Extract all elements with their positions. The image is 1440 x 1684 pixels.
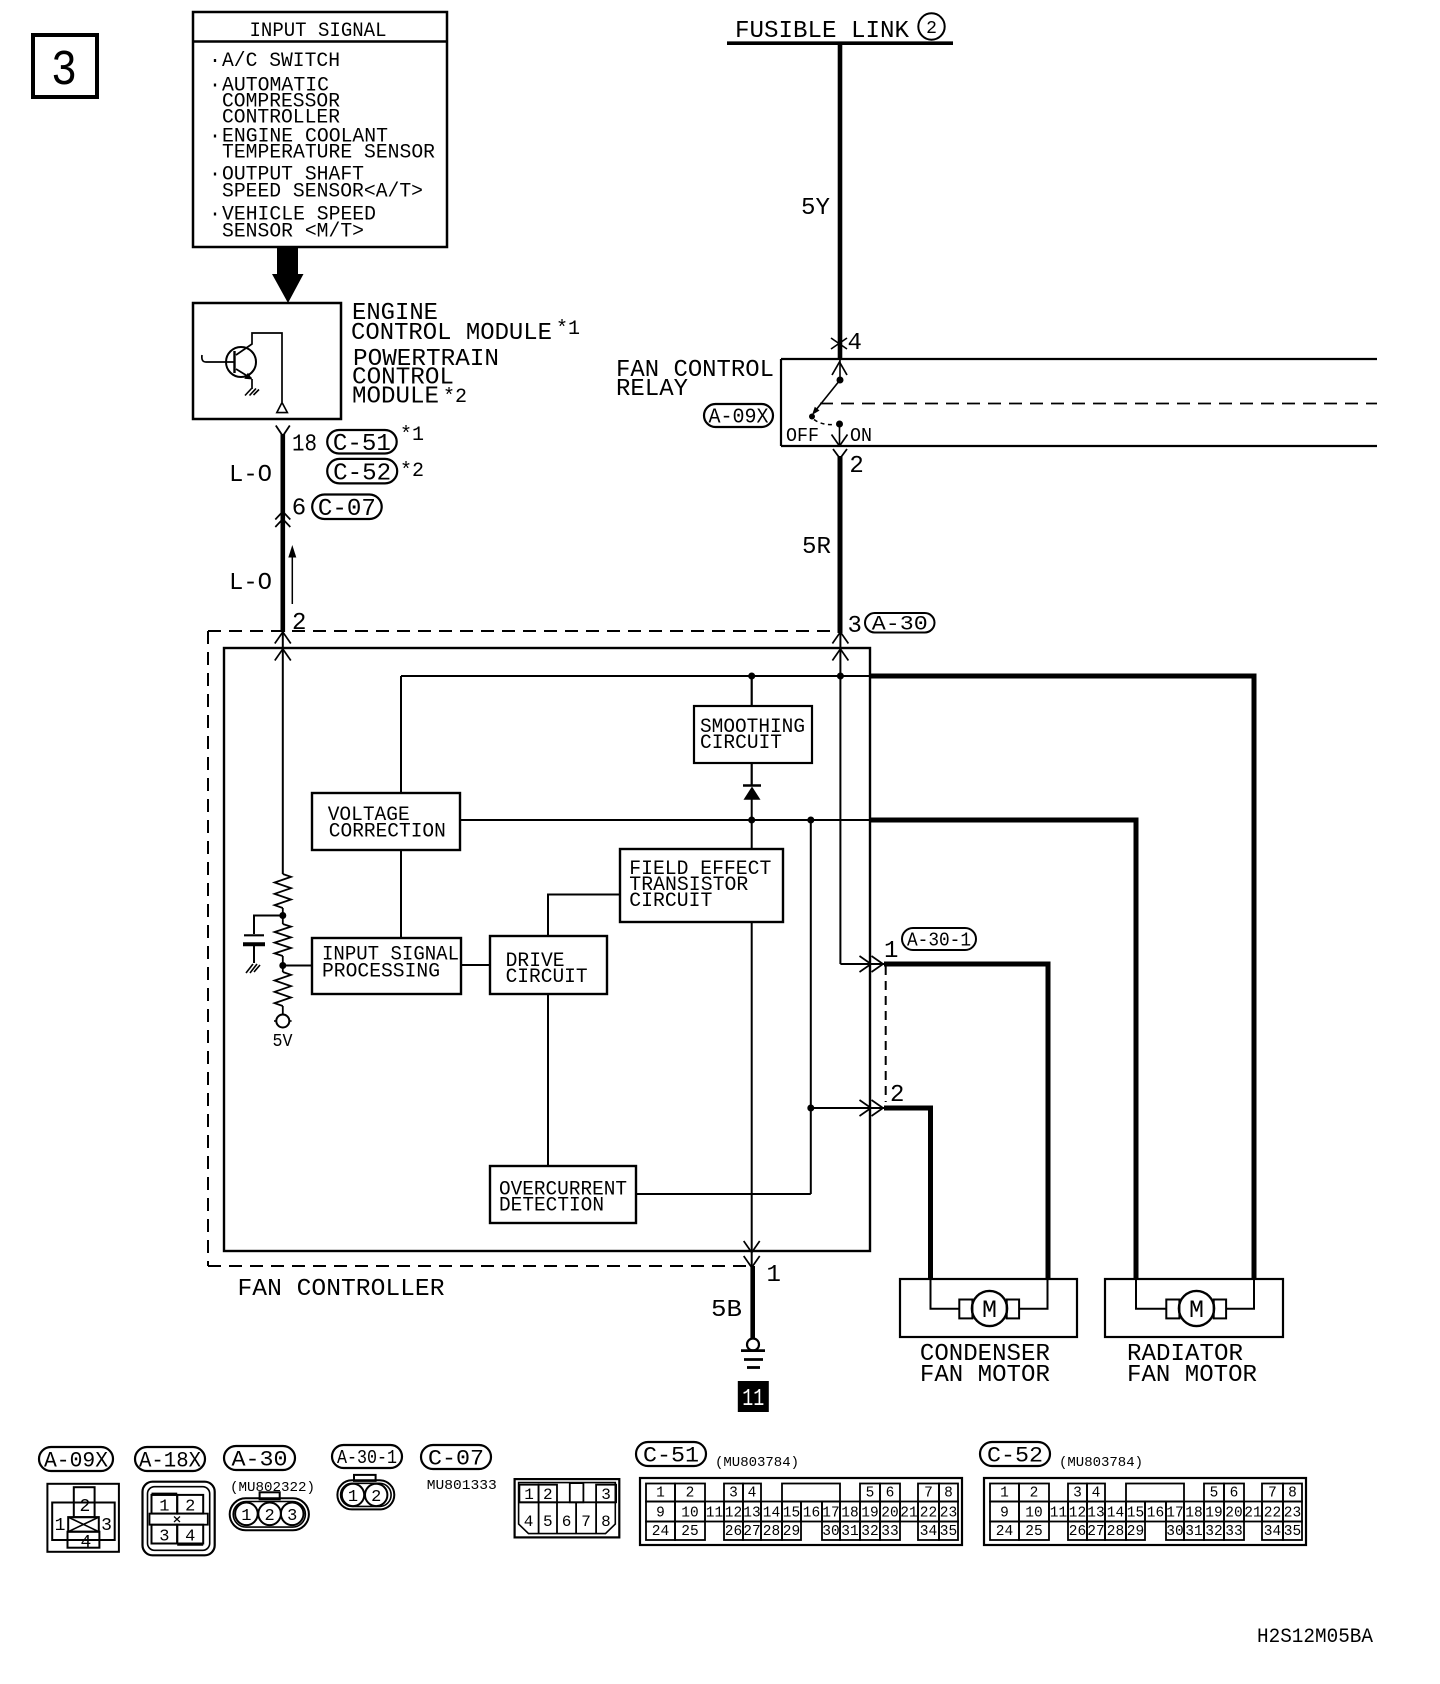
node at overcurrent branch (807, 817, 814, 824)
svg-text:14: 14 (763, 1506, 780, 1522)
relay coil dashed actuation line (820, 403, 1377, 405)
inline connector chevrons on L-O wire (275, 512, 290, 520)
connector C-51 label (636, 1442, 706, 1466)
connector ref A-30 (865, 613, 935, 633)
svg-text:1: 1 (241, 1507, 251, 1526)
svg-text:15: 15 (1127, 1506, 1144, 1522)
capacitor C1 (244, 934, 264, 936)
connector marks at output 1 (860, 956, 872, 964)
svg-text:21: 21 (900, 1506, 917, 1522)
svg-text:4: 4 (185, 1528, 195, 1547)
svg-text:5: 5 (866, 1486, 875, 1502)
transistor Q1 inside ECM (226, 347, 256, 377)
svg-text:18: 18 (292, 432, 317, 459)
svg-text:M: M (982, 1296, 997, 1325)
5V supply symbol (276, 1015, 289, 1028)
svg-text:7: 7 (1268, 1486, 1277, 1502)
svg-text:26: 26 (725, 1524, 742, 1540)
svg-text:10: 10 (1025, 1506, 1042, 1522)
svg-text:(MU803784): (MU803784) (1059, 1455, 1143, 1471)
svg-text:8: 8 (601, 1513, 611, 1531)
input signal processing block (312, 938, 461, 994)
wire FET circuit down to output pin 1 (751, 922, 753, 1266)
svg-text:32: 32 (1205, 1524, 1222, 1540)
node at smoothing circuit tap (748, 673, 755, 680)
wire 5B to ground (750, 1266, 755, 1339)
connector fork at relay pin 2 (833, 449, 840, 459)
svg-text:(MU802322): (MU802322) (230, 1480, 315, 1496)
svg-text:·: · (209, 75, 221, 98)
svg-text:17: 17 (822, 1506, 839, 1522)
resistor R3 (282, 966, 284, 973)
svg-text:23: 23 (1284, 1506, 1301, 1522)
svg-text:16: 16 (1147, 1506, 1164, 1522)
svg-text:25: 25 (681, 1524, 698, 1540)
connector A-18X pinout (143, 1482, 215, 1556)
svg-text:16: 16 (803, 1506, 820, 1522)
internal supply line top (401, 675, 870, 677)
connector A-30 label (224, 1446, 295, 1470)
svg-text:A-30: A-30 (232, 1448, 288, 1473)
condenser fan motor box (900, 1279, 1077, 1337)
wire to output 1 (840, 963, 884, 965)
svg-text:9: 9 (1000, 1506, 1009, 1522)
svg-text:SPEED SENSOR<A/T>: SPEED SENSOR<A/T> (222, 181, 423, 204)
overcurrent detection block (490, 1166, 636, 1223)
svg-text:20: 20 (881, 1506, 898, 1522)
svg-text:L-O: L-O (229, 462, 272, 489)
svg-text:3: 3 (729, 1486, 738, 1502)
svg-text:22: 22 (1264, 1506, 1281, 1522)
connector A-09X label (39, 1447, 113, 1471)
connector C-07 label (421, 1445, 491, 1469)
node junction to input signal processing (279, 962, 286, 969)
svg-text:10: 10 (681, 1506, 698, 1522)
connector C-07 pinout (515, 1479, 620, 1537)
chassis ground of transistor emitter (245, 389, 252, 396)
ground reference box 11 (738, 1381, 769, 1412)
svg-text:A-18X: A-18X (139, 1449, 201, 1474)
wire top line to smoothing circuit (751, 676, 753, 706)
svg-text:6: 6 (1230, 1486, 1239, 1502)
wire from input 2 down to resistors (282, 633, 284, 874)
svg-text:C-07: C-07 (428, 1447, 484, 1472)
svg-text:8: 8 (944, 1486, 953, 1502)
svg-text:4: 4 (748, 1486, 757, 1502)
svg-text:11: 11 (706, 1506, 723, 1522)
wire FET circuit to drive circuit (548, 895, 620, 937)
up arrow beside L-O wire (291, 554, 293, 604)
svg-text:2: 2 (686, 1486, 695, 1502)
connector ref A-30-1 (902, 928, 976, 950)
svg-text:2: 2 (543, 1486, 553, 1504)
svg-text:23: 23 (940, 1506, 957, 1522)
svg-text:9: 9 (656, 1506, 665, 1522)
svg-text:CORRECTION: CORRECTION (329, 821, 446, 844)
connector C-51 pinout grid (640, 1478, 962, 1545)
svg-text:19: 19 (1205, 1506, 1222, 1522)
svg-text:M: M (1189, 1296, 1204, 1325)
wire smoothing circuit to diode (751, 763, 753, 786)
connector A-30-1 label (332, 1445, 402, 1468)
connector ref C-51 (327, 430, 397, 454)
svg-text:MODULE: MODULE (352, 384, 439, 411)
capacitor ground (246, 964, 253, 973)
connector A-30-1 pinout (354, 1475, 376, 1481)
main wire from input 3 to output 1 (839, 633, 841, 964)
svg-text:RELAY: RELAY (616, 376, 688, 403)
svg-text:5: 5 (543, 1513, 553, 1531)
svg-text:ON: ON (850, 425, 872, 447)
svg-text:5R: 5R (802, 534, 831, 561)
svg-text:·: · (209, 164, 221, 187)
svg-text:A-09X: A-09X (44, 1449, 108, 1474)
connector C-52 pinout grid (984, 1478, 1306, 1545)
field effect transistor circuit block (620, 849, 783, 922)
wire input signal processing to drive circuit (461, 964, 490, 966)
svg-text:*2: *2 (443, 386, 467, 409)
wire to capacitor (254, 916, 283, 935)
svg-text:CIRCUIT: CIRCUIT (700, 732, 782, 755)
svg-text:C-52: C-52 (333, 460, 391, 487)
wire from top line down to voltage correction (400, 676, 402, 793)
wire voltage correction to input signal processing (400, 850, 402, 937)
voltage correction block (312, 793, 460, 850)
svg-text:3: 3 (848, 613, 862, 640)
svg-text:2: 2 (926, 19, 937, 39)
connector mark at relay pin 4 (831, 338, 847, 349)
svg-text:11: 11 (1050, 1506, 1067, 1522)
svg-text:1: 1 (884, 938, 898, 965)
wire diode to junction (751, 799, 753, 849)
svg-text:1: 1 (55, 1516, 66, 1536)
svg-text:2: 2 (1030, 1486, 1039, 1502)
svg-text:1: 1 (656, 1486, 665, 1502)
svg-text:3: 3 (1073, 1486, 1082, 1502)
resistor R2 (282, 916, 284, 925)
svg-text:6: 6 (292, 496, 306, 523)
svg-text:21: 21 (1244, 1506, 1261, 1522)
connector ref C-07 (312, 495, 382, 520)
svg-text:24: 24 (996, 1524, 1013, 1540)
svg-text:2: 2 (79, 1497, 90, 1517)
svg-text:A-09X: A-09X (709, 407, 769, 430)
wire to input signal processing block (283, 965, 312, 967)
svg-text:29: 29 (783, 1524, 800, 1540)
svg-text:34: 34 (1264, 1524, 1281, 1540)
svg-text:4: 4 (524, 1513, 534, 1531)
wire to output 2 (811, 1107, 884, 1109)
svg-text:19: 19 (861, 1506, 878, 1522)
svg-text:TEMPERATURE SENSOR: TEMPERATURE SENSOR (222, 142, 435, 165)
svg-text:30: 30 (1166, 1524, 1183, 1540)
svg-text:6: 6 (562, 1513, 572, 1531)
svg-text:C-07: C-07 (318, 496, 376, 523)
svg-text:C-51: C-51 (643, 1444, 699, 1469)
ECM output pin triangle (277, 403, 288, 413)
ground symbol (747, 1339, 759, 1351)
svg-text:H2S12M05BA: H2S12M05BA (1257, 1626, 1373, 1649)
wire L-O from ECM down to fan controller (280, 434, 285, 632)
svg-text:A/C SWITCH: A/C SWITCH (222, 50, 340, 73)
fan controller inner box (224, 648, 870, 1251)
fan control relay box (781, 358, 1377, 360)
svg-text:22: 22 (920, 1506, 937, 1522)
connector fork at ECM pin 18 (276, 426, 283, 437)
svg-text:35: 35 (940, 1524, 957, 1540)
svg-text:31: 31 (841, 1524, 858, 1540)
connector marks at output 2 (860, 1100, 872, 1108)
connector ref A-09X (704, 404, 773, 427)
page reference box 3 (33, 35, 97, 97)
svg-text:3: 3 (101, 1516, 112, 1536)
connector A-09X pinout (47, 1484, 119, 1552)
svg-text:31: 31 (1185, 1524, 1202, 1540)
radiator fan motor box (1105, 1279, 1283, 1337)
svg-text:2: 2 (849, 453, 863, 480)
thick wire to radiator fan motor negative (870, 820, 1136, 1279)
svg-text:2: 2 (292, 610, 306, 637)
svg-text:DETECTION: DETECTION (499, 1195, 604, 1218)
wire 5R from relay to fan controller (838, 456, 843, 633)
svg-text:2: 2 (264, 1507, 274, 1526)
svg-text:30: 30 (822, 1524, 839, 1540)
svg-text:7: 7 (924, 1486, 933, 1502)
svg-text:*1: *1 (400, 424, 424, 447)
wire overcurrent detection feedback (636, 1193, 811, 1195)
svg-text:20: 20 (1225, 1506, 1242, 1522)
svg-text:FAN MOTOR: FAN MOTOR (1127, 1362, 1257, 1389)
svg-text:·: · (209, 204, 221, 227)
svg-text:A-30-1: A-30-1 (337, 1447, 397, 1469)
svg-text:C-51: C-51 (333, 431, 391, 458)
fan controller dashed boundary (208, 630, 841, 632)
svg-text:2: 2 (371, 1488, 381, 1507)
input signal list box (193, 12, 447, 247)
svg-text:4: 4 (1092, 1486, 1101, 1502)
svg-text:8: 8 (1288, 1486, 1297, 1502)
smoothing circuit block (694, 706, 812, 763)
svg-text:OFF: OFF (786, 425, 819, 447)
resistor R1 (275, 874, 291, 908)
svg-text:1: 1 (348, 1488, 358, 1507)
dashed connector grouping line A-30-1 (885, 966, 887, 1102)
node at output 2 branch (807, 1105, 814, 1112)
horizontal line from voltage correction (460, 819, 870, 821)
connector marks at input 3 (832, 632, 840, 644)
svg-text:C-52: C-52 (987, 1444, 1043, 1469)
radiator fan motor M2 (1179, 1291, 1214, 1326)
svg-text:(MU803784): (MU803784) (715, 1455, 799, 1471)
node at diode branch (748, 817, 755, 824)
drive circuit block (490, 936, 607, 994)
svg-text:17: 17 (1166, 1506, 1183, 1522)
svg-text:2: 2 (185, 1498, 195, 1517)
fusible link bus bar (727, 41, 953, 45)
svg-text:2: 2 (890, 1082, 904, 1109)
svg-text:1: 1 (1000, 1486, 1009, 1502)
thick wire output 2 to condenser fan motor (884, 1108, 931, 1279)
arrow from input signal to ECM (272, 247, 304, 303)
svg-text:28: 28 (1107, 1524, 1124, 1540)
svg-text:1: 1 (159, 1498, 169, 1517)
svg-text:33: 33 (881, 1524, 898, 1540)
relay switch (832, 362, 847, 375)
svg-text:3: 3 (51, 43, 77, 100)
svg-text:5Y: 5Y (801, 195, 830, 222)
svg-text:5B: 5B (711, 1297, 742, 1324)
svg-text:*2: *2 (400, 460, 424, 483)
svg-text:A-30-1: A-30-1 (907, 930, 971, 952)
connector A-30 pinout (260, 1492, 280, 1499)
svg-text:18: 18 (841, 1506, 858, 1522)
svg-text:28: 28 (763, 1524, 780, 1540)
diode D1 (743, 784, 761, 787)
node junction at capacitor tap (279, 912, 286, 919)
svg-text:14: 14 (1107, 1506, 1124, 1522)
svg-text:4: 4 (848, 330, 862, 357)
connector marks at bottom pin 1 (744, 1241, 752, 1253)
svg-text:3: 3 (159, 1528, 169, 1547)
wire drive circuit to overcurrent detection (547, 994, 549, 1166)
svg-text:25: 25 (1025, 1524, 1042, 1540)
svg-text:FAN CONTROLLER: FAN CONTROLLER (238, 1276, 445, 1303)
svg-text:6: 6 (886, 1486, 895, 1502)
svg-text:3: 3 (287, 1507, 297, 1526)
svg-text:4: 4 (80, 1533, 91, 1553)
connector A-18X label (135, 1447, 205, 1471)
svg-text:CIRCUIT: CIRCUIT (629, 890, 712, 913)
condenser fan motor M1 (972, 1291, 1007, 1326)
svg-text:·: · (209, 50, 221, 73)
svg-text:32: 32 (861, 1524, 878, 1540)
svg-text:MU801333: MU801333 (427, 1478, 497, 1494)
svg-text:13: 13 (743, 1506, 760, 1522)
svg-text:L-O: L-O (229, 570, 272, 597)
svg-text:*1: *1 (556, 318, 580, 341)
svg-text:SENSOR <M/T>: SENSOR <M/T> (222, 221, 364, 244)
svg-text:12: 12 (725, 1506, 742, 1522)
svg-text:FUSIBLE LINK: FUSIBLE LINK (735, 18, 910, 45)
svg-text:11: 11 (742, 1386, 764, 1413)
svg-text:5: 5 (1210, 1486, 1219, 1502)
svg-text:5V: 5V (273, 1032, 293, 1052)
svg-text:34: 34 (920, 1524, 937, 1540)
svg-text:CIRCUIT: CIRCUIT (506, 966, 588, 989)
svg-text:33: 33 (1225, 1524, 1242, 1540)
svg-text:12: 12 (1069, 1506, 1086, 1522)
connector marks at input 2 (275, 632, 283, 644)
wire 5Y from fusible link to relay (838, 45, 843, 359)
svg-text:·: · (209, 126, 221, 149)
svg-text:1: 1 (524, 1486, 534, 1504)
connector ref C-52 (327, 459, 397, 484)
svg-text:7: 7 (581, 1513, 591, 1531)
svg-text:CONTROL MODULE: CONTROL MODULE (351, 320, 552, 347)
svg-text:18: 18 (1185, 1506, 1202, 1522)
thick wire supply to radiator fan motor (870, 676, 1254, 1279)
svg-text:A-30: A-30 (872, 614, 928, 637)
svg-text:27: 27 (1087, 1524, 1104, 1540)
node at main wire (837, 673, 844, 680)
svg-text:26: 26 (1069, 1524, 1086, 1540)
svg-text:1: 1 (767, 1262, 781, 1289)
svg-text:29: 29 (1127, 1524, 1144, 1540)
svg-text:13: 13 (1087, 1506, 1104, 1522)
thick wire output 1 to condenser fan motor (884, 964, 1048, 1279)
svg-text:15: 15 (783, 1506, 800, 1522)
ECM / PCM box (193, 303, 341, 419)
svg-text:27: 27 (743, 1524, 760, 1540)
svg-text:3: 3 (601, 1486, 611, 1504)
svg-text:PROCESSING: PROCESSING (322, 961, 440, 984)
connector C-52 label (980, 1442, 1050, 1466)
svg-text:FAN MOTOR: FAN MOTOR (920, 1362, 1050, 1389)
svg-text:24: 24 (652, 1524, 669, 1540)
svg-text:35: 35 (1284, 1524, 1301, 1540)
svg-text:INPUT SIGNAL: INPUT SIGNAL (250, 20, 387, 43)
